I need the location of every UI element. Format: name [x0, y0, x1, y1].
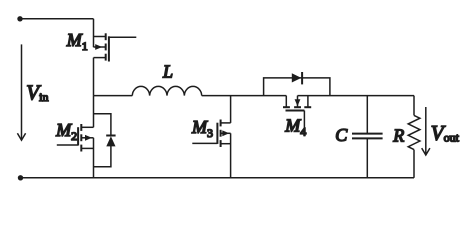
node: positive input terminal dot — [17, 16, 22, 21]
svg-text:L: L — [162, 61, 173, 81]
wire: M4 source to output node — [298, 95, 415, 97]
transistor M3 (low-side output MOSFET) — [192, 96, 230, 178]
svg-text:M3: M3 — [191, 117, 213, 140]
wire: resistor to bottom rail — [413, 150, 415, 178]
wire: inductor to M4 drain — [202, 95, 287, 97]
Vout arrow (output voltage polarity arrow) — [422, 107, 430, 155]
node: negative input terminal dot — [18, 175, 23, 180]
resistor R zigzag — [408, 115, 420, 149]
wire: bottom ground rail — [21, 177, 415, 179]
wire: output node down to resistor — [413, 96, 415, 116]
svg-text:M1: M1 — [66, 30, 88, 53]
svg-text:R: R — [392, 126, 404, 146]
capacitor C plates — [352, 134, 383, 139]
transistor M2 (low-side input MOSFET) — [57, 96, 94, 178]
transistor M1 (high-side input MOSFET) — [94, 19, 137, 96]
wire: top rail from input terminal to M1 drain — [20, 18, 94, 20]
capacitor C branch wires — [366, 96, 368, 134]
source Vin arrow (input voltage polarity arrow) — [17, 44, 25, 140]
svg-text:Vin: Vin — [26, 81, 48, 105]
diode D2 (body diode parallel to M2) — [94, 114, 116, 167]
svg-text:Vout: Vout — [431, 121, 460, 145]
svg-text:M2: M2 — [55, 120, 77, 143]
diode D4 (parallel diode over M4) — [264, 72, 330, 96]
svg-text:M4: M4 — [284, 116, 306, 139]
transistor M4 (high-side output MOSFET, horizontal) — [283, 96, 311, 137]
inductor L — [132, 86, 201, 95]
wire: switch node to inductor — [94, 95, 133, 97]
svg-text:C: C — [335, 125, 348, 145]
